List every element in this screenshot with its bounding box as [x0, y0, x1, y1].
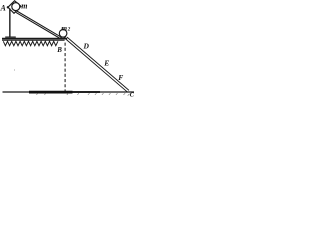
- pulley A bracket (diamond mount): [8, 1, 21, 14]
- ground thick segment: [29, 91, 73, 94]
- svg-text:m: m: [61, 23, 67, 32]
- pulley B bracket: [60, 29, 66, 39]
- svg-text:A: A: [0, 4, 7, 13]
- svg-text:D: D: [83, 41, 90, 50]
- pulley B wheel: [59, 30, 67, 38]
- wire brace from pulley A to table edge B (double line): [16, 11, 61, 38]
- table lower line: [2, 39, 65, 41]
- table top surface line: [2, 38, 67, 40]
- svg-text:E: E: [103, 59, 109, 68]
- ground hatch ticks: [36, 93, 129, 95]
- post base plate: [5, 36, 16, 38]
- incline rod B to C (double line): [66, 37, 129, 92]
- dashed drop line from B to ground: [64, 43, 66, 92]
- svg-text:m: m: [21, 1, 27, 10]
- svg-text:2: 2: [67, 28, 71, 33]
- svg-text:C: C: [130, 91, 134, 98]
- pulley A wheel: [12, 3, 20, 11]
- ground medium segment: [73, 91, 101, 93]
- svg-text:F: F: [118, 73, 123, 82]
- scan noise dot: [14, 70, 15, 71]
- svg-text:B: B: [56, 46, 62, 54]
- post (vertical support rod): [9, 9, 11, 38]
- ground line: [3, 91, 135, 93]
- table hatch zigzag: [3, 41, 58, 45]
